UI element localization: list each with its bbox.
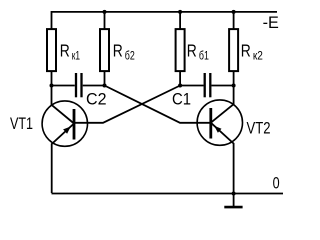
- svg-text:C2: C2: [86, 90, 107, 109]
- svg-text:0: 0: [273, 174, 280, 193]
- svg-text:R: R: [187, 41, 197, 61]
- svg-text:б1: б1: [199, 50, 209, 62]
- svg-text:б2: б2: [125, 50, 135, 62]
- svg-text:R: R: [60, 41, 70, 61]
- svg-text:VT1: VT1: [10, 114, 33, 133]
- svg-text:к2: к2: [253, 50, 263, 62]
- svg-text:VT2: VT2: [247, 119, 271, 138]
- svg-text:R: R: [113, 41, 123, 61]
- svg-text:к1: к1: [72, 50, 80, 62]
- svg-text:R: R: [241, 41, 251, 61]
- svg-text:-E: -E: [263, 14, 279, 32]
- svg-text:C1: C1: [172, 90, 191, 109]
